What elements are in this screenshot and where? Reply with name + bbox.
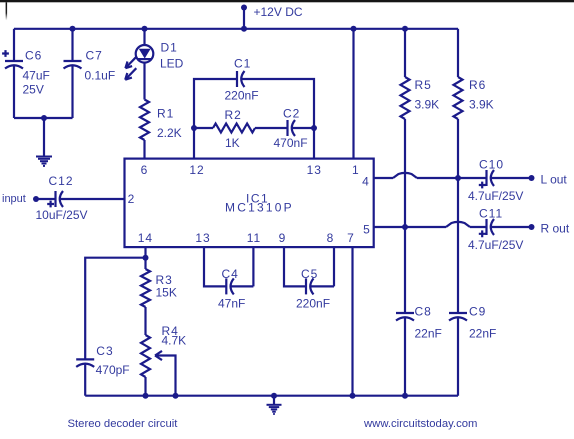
svg-text:4.7K: 4.7K (162, 334, 187, 348)
svg-text:6: 6 (141, 163, 148, 177)
svg-text:C4: C4 (222, 267, 239, 281)
svg-text:2.2K: 2.2K (157, 126, 182, 140)
svg-text:C3: C3 (96, 344, 113, 358)
node +12V DC supply (243, 8, 245, 29)
wire pin14 junction to C3 (85, 258, 145, 360)
svg-text:C8: C8 (415, 305, 432, 319)
resistor R3 (144, 258, 146, 269)
svg-text:470nF: 470nF (274, 136, 308, 150)
LED D1 light arrows (126, 56, 137, 67)
wire top supply rail (14, 28, 458, 30)
svg-text:5: 5 (363, 223, 370, 237)
svg-text:C11: C11 (479, 207, 503, 221)
wire C8 to bottom rail (404, 318, 406, 396)
svg-text:4.7uF/25V: 4.7uF/25V (468, 189, 523, 203)
wire R6 to C9 (457, 119, 459, 313)
svg-text:13: 13 (195, 231, 210, 245)
svg-text:22nF: 22nF (469, 327, 496, 341)
svg-text:1: 1 (352, 163, 359, 177)
svg-text:7: 7 (347, 231, 354, 245)
wire pin9 drop (284, 247, 306, 286)
wire pin5 output (R) (374, 226, 447, 228)
svg-text:R6: R6 (469, 78, 486, 92)
svg-text:12: 12 (189, 163, 204, 177)
wire C12 to pin2 (60, 198, 125, 200)
svg-text:220nF: 220nF (296, 297, 330, 311)
svg-text:R out: R out (541, 222, 570, 236)
wire C9 to bottom rail (457, 318, 459, 396)
svg-text:3.9K: 3.9K (469, 98, 494, 112)
svg-text:C7: C7 (86, 49, 103, 63)
svg-text:4: 4 (362, 175, 369, 189)
capacitor C2 (286, 120, 288, 136)
svg-text:15K: 15K (156, 286, 177, 300)
resistor R2 (213, 124, 255, 133)
svg-text:47uF: 47uF (23, 69, 50, 83)
wire C4 to pin11 (231, 247, 254, 286)
wire C6-C7 bottom (14, 117, 73, 119)
wire C2 to pin13 riser (292, 127, 314, 129)
svg-text:Stereo decoder circuit: Stereo decoder circuit (68, 418, 179, 430)
svg-text:14: 14 (138, 231, 153, 245)
capacitor C10 (485, 170, 487, 186)
svg-text:470pF: 470pF (96, 363, 130, 377)
ground (main) (271, 393, 277, 399)
svg-text:C1: C1 (234, 57, 251, 71)
capacitor C9 (449, 312, 467, 314)
svg-text:2: 2 (128, 192, 135, 206)
svg-text:C10: C10 (479, 158, 504, 172)
resistor R1 (140, 100, 149, 141)
wire hop over R6 line (446, 222, 470, 227)
svg-text:www.circuitstoday.com: www.circuitstoday.com (363, 418, 477, 430)
svg-text:C6: C6 (25, 49, 42, 63)
svg-text:10uF/25V: 10uF/25V (36, 208, 88, 222)
svg-text:47nF: 47nF (218, 297, 245, 311)
wire R3 to R4 (144, 307, 146, 335)
wire pin13 (bottom) drop (204, 247, 226, 286)
resistor R6 (457, 29, 459, 77)
capacitor C12 (54, 191, 56, 207)
node R out (529, 224, 535, 230)
wire R4 wiper arm (156, 356, 176, 396)
svg-text:9: 9 (279, 231, 286, 245)
wire C5 to pin8 (311, 247, 335, 286)
svg-text:LED: LED (160, 57, 184, 71)
wire R2 to C2 (255, 127, 288, 129)
capacitor C3 (76, 358, 94, 360)
svg-text:220nF: 220nF (225, 89, 259, 103)
wire bottom ground rail (85, 395, 458, 397)
svg-text:MC1310P: MC1310P (225, 201, 294, 215)
node L out (529, 175, 535, 181)
svg-text:4.7uF/25V: 4.7uF/25V (468, 238, 523, 252)
svg-text:+12V DC: +12V DC (254, 5, 303, 19)
wire pin12 riser (194, 79, 237, 159)
capacitor C1 (236, 71, 238, 87)
wire pin7 to ground rail (351, 247, 353, 396)
svg-text:D1: D1 (161, 41, 178, 55)
svg-text:C2: C2 (283, 107, 300, 121)
capacitor C6 (13, 29, 15, 61)
capacitor C4 (225, 278, 227, 294)
svg-text:R5: R5 (415, 78, 432, 92)
resistor R4 (preset) (141, 335, 150, 377)
wire hop over R5 line (393, 173, 417, 178)
wire middle row left (191, 125, 197, 131)
IC IC1 MC1310P box (125, 159, 374, 248)
svg-text:13: 13 (307, 163, 322, 177)
svg-text:R2: R2 (225, 108, 242, 122)
svg-text:input: input (2, 193, 26, 205)
svg-text:8: 8 (327, 231, 334, 245)
wire pin14 (144, 247, 146, 258)
wire C10 to L out (491, 177, 532, 179)
svg-text:25V: 25V (23, 83, 44, 97)
capacitor C8 (396, 312, 414, 314)
resistor R5 (402, 26, 408, 32)
ground (filter caps) (43, 118, 45, 157)
capacitor C11 (485, 219, 487, 235)
svg-text:C5: C5 (301, 267, 318, 281)
capacitor C7 (70, 26, 76, 32)
R4 wiper arrowhead (155, 351, 162, 360)
LED D1 (142, 26, 148, 32)
wire C3 to bottom rail (84, 364, 86, 396)
svg-text:0.1uF: 0.1uF (85, 69, 116, 83)
wire C1 to pin13 riser (242, 79, 315, 159)
svg-text:3.9K: 3.9K (415, 98, 440, 112)
svg-text:22nF: 22nF (415, 327, 442, 341)
svg-text:C9: C9 (469, 305, 486, 319)
svg-text:L out: L out (541, 173, 568, 187)
wire pin4 output (L) (374, 177, 394, 179)
wire R5 to C8 (404, 119, 406, 313)
wire C11 to R out (491, 226, 532, 228)
svg-text:1K: 1K (225, 136, 240, 150)
wire R4 to bottom rail (144, 377, 146, 396)
svg-text:C12: C12 (49, 174, 74, 188)
svg-text:R1: R1 (157, 107, 174, 121)
svg-text:11: 11 (247, 231, 261, 245)
wire pin1 to supply rail (351, 26, 357, 32)
capacitor C5 (305, 278, 307, 294)
